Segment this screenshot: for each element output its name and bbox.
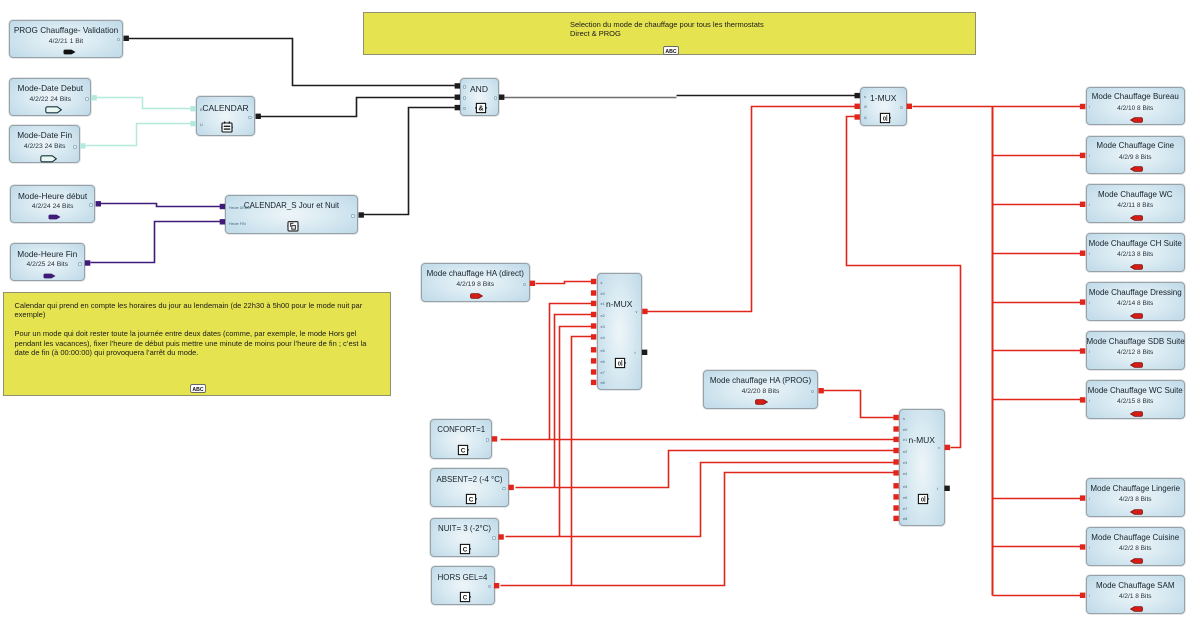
pin Mode Chauffage WC input xyxy=(1080,202,1085,207)
wire branch HORS GEL -> n-MUX1.e4 xyxy=(572,337,594,586)
pin n-MUX 2 input e5 xyxy=(893,483,898,488)
icon calendar_s xyxy=(287,220,299,232)
note Calendar explanation xyxy=(3,292,391,396)
svg-text:0: 0 xyxy=(618,361,621,367)
svg-text:C: C xyxy=(463,547,468,554)
output block Mode Chauffage WC Suite xyxy=(1086,380,1186,419)
pin Mode Chauffage Cine input xyxy=(1080,153,1085,158)
function block 1-MUX xyxy=(860,87,907,126)
wire PROG.out -> AND.in1 xyxy=(129,39,455,86)
pin HA PROG output xyxy=(818,388,823,393)
pin n-MUX 1 input e2 xyxy=(591,312,596,317)
icon 8-bit flag red left xyxy=(1130,606,1143,612)
pin n-MUX 2 output t xyxy=(944,486,949,491)
pin constant ABSENT=2 (-4 C) output xyxy=(508,485,513,490)
svg-text:0: 0 xyxy=(920,497,923,503)
wire AND.out segment gray xyxy=(505,97,677,99)
wire CONFORT -> n-MUX2.e1 xyxy=(501,439,896,441)
wire Mode-Heure-Fin.out -> CALENDAR_S.HeureFIN xyxy=(91,222,223,263)
icon constant xyxy=(465,493,477,505)
icon 8-bit flag red left xyxy=(1130,313,1143,319)
function block CALENDAR_S Jour et Nuit xyxy=(225,195,358,234)
icon 8-bit flag red left xyxy=(1130,215,1143,221)
icon constant xyxy=(459,591,471,603)
wire Mode-Date-Fin.out -> CALENDAR.U xyxy=(86,124,194,146)
wire bus -> Mode Chauffage Cine xyxy=(993,155,1083,157)
pin Mode Chauffage CH Suite input xyxy=(1080,251,1085,256)
pin constant HORS GEL=4 output xyxy=(494,583,499,588)
input block Mode chauffage HA (direct) xyxy=(421,263,530,302)
wire AND.out -> 1-MUX.s xyxy=(677,95,855,97)
pin Mode Chauffage Bureau input xyxy=(1080,104,1085,109)
input block Mode-Date Debut xyxy=(9,78,91,116)
input block Mode-Date Fin xyxy=(9,125,80,164)
wire bus -> Mode Chauffage WC xyxy=(993,204,1083,206)
svg-text:0: 0 xyxy=(883,117,886,123)
pin n-MUX 1 output t xyxy=(642,350,647,355)
output block Mode Chauffage Cine xyxy=(1086,136,1186,175)
pin Mode Chauffage SAM input xyxy=(1080,593,1085,598)
pin HA direct output xyxy=(530,281,535,286)
pin n-MUX 1 input e1 xyxy=(591,301,596,306)
wire n-MUX2.v -> 1-MUX.i1 xyxy=(847,117,961,448)
pin n-MUX 1 input e0 xyxy=(591,290,596,295)
svg-text:ABC: ABC xyxy=(192,386,203,392)
output block Mode Chauffage CH Suite xyxy=(1086,233,1186,272)
output block Mode Chauffage Bureau xyxy=(1086,87,1186,126)
pin CALENDAR input B xyxy=(190,106,195,111)
pin Mode-Heure Fin output xyxy=(85,260,90,265)
svg-text:C: C xyxy=(460,447,465,454)
pin n-MUX 2 input e4 xyxy=(893,470,898,475)
wire branch NUIT -> n-MUX1.e3 xyxy=(560,327,594,537)
pin n-MUX 1 input e6 xyxy=(591,358,596,363)
pin n-MUX 2 input e0 xyxy=(893,426,898,431)
pin AND output xyxy=(499,95,504,100)
pin CALENDAR_S input Heure DEBUT xyxy=(220,204,225,209)
constant CONFORT=1 xyxy=(430,419,492,459)
pin n-MUX 2 input e7 xyxy=(893,505,898,510)
wire bus -> Mode Chauffage Lingerie xyxy=(993,498,1083,500)
icon 8-bit flag red left xyxy=(1130,558,1143,564)
icon 1-bit flag xyxy=(63,49,76,55)
pin Mode Chauffage WC Suite input xyxy=(1080,397,1085,402)
constant ABSENT=2 (-4 C) xyxy=(430,468,509,507)
icon 24-bit flag xyxy=(40,155,57,163)
wire branch ABSENT -> n-MUX1.e2 xyxy=(555,315,594,488)
pin CALENDAR_S output xyxy=(359,212,364,217)
icon mux xyxy=(879,112,891,124)
icon calendar xyxy=(221,121,233,133)
svg-text:C: C xyxy=(468,496,473,503)
pin n-MUX 1 input e4 xyxy=(591,334,596,339)
pin 1-MUX input i1 xyxy=(855,114,860,119)
function block CALENDAR xyxy=(196,96,255,136)
icon 8-bit flag red left xyxy=(1130,411,1143,417)
wire CALENDAR.out -> AND.in2 xyxy=(261,98,455,117)
wire bus -> Mode Chauffage CH Suite xyxy=(993,253,1083,255)
pin Mode Chauffage SDB Suite input xyxy=(1080,348,1085,353)
pin n-MUX 2 input s xyxy=(893,415,898,420)
pin AND input 2 xyxy=(455,95,460,100)
pin n-MUX 2 input e2 xyxy=(893,448,898,453)
icon ABC note marker xyxy=(663,46,679,55)
wire HORS GEL -> n-MUX2.e4 xyxy=(501,473,896,586)
wire n-MUX1.v -> 1-MUX.i0 xyxy=(648,107,855,312)
wire bus -> Mode Chauffage SDB Suite xyxy=(993,350,1083,352)
pin CALENDAR_S input Heure FIN xyxy=(220,219,225,224)
pin PROG output xyxy=(124,36,129,41)
pin constant NUIT= 3 (-2C) output xyxy=(498,534,503,539)
output block Mode Chauffage Cuisine xyxy=(1086,527,1186,566)
icon 8-bit flag red xyxy=(470,293,483,299)
constant NUIT= 3 (-2C) xyxy=(430,518,499,558)
pin Mode-Date Debut output xyxy=(91,95,96,100)
pin Mode-Date Fin output xyxy=(80,143,85,148)
pin n-MUX 1 input e7 xyxy=(591,369,596,374)
wire bus -> Mode Chauffage Cuisine xyxy=(993,546,1083,548)
icon mux xyxy=(917,493,929,505)
wire HAPROG.out -> n-MUX2.s xyxy=(824,391,896,418)
note Selection du mode de chauffage xyxy=(363,12,976,55)
wire bus -> Mode Chauffage Bureau xyxy=(993,106,1083,108)
pin 1-MUX output o xyxy=(907,104,912,109)
icon 24-bit flag purple xyxy=(48,214,61,220)
icon AND gate xyxy=(475,102,487,114)
input block PROG Chauffage- Validation xyxy=(9,20,123,58)
pin n-MUX 1 input s xyxy=(591,279,596,284)
svg-text:ABC: ABC xyxy=(665,49,676,55)
pin n-MUX 2 input e6 xyxy=(893,494,898,499)
pin AND input 1 xyxy=(455,83,460,88)
icon 8-bit flag red xyxy=(755,399,768,405)
n-MUX 1 xyxy=(597,273,643,390)
wire branch CONFORT -> n-MUX1.e1 xyxy=(550,304,594,440)
pin CALENDAR output xyxy=(256,114,261,119)
wire bus -> Mode Chauffage WC Suite xyxy=(993,399,1083,401)
wire NUIT -> n-MUX2.e3 xyxy=(506,463,896,537)
wire Mode-Date-Debut.out -> CALENDAR.B xyxy=(97,98,194,109)
output block Mode Chauffage Dressing xyxy=(1086,282,1186,321)
icon 24-bit flag xyxy=(45,106,62,114)
pin 1-MUX input i0 xyxy=(855,104,860,109)
pin n-MUX 2 input e8 xyxy=(893,516,898,521)
icon 8-bit flag red left xyxy=(1130,166,1143,172)
wire CALENDAR_S.out -> AND.in3 xyxy=(364,108,455,215)
input block Mode chauffage HA (PROG) xyxy=(703,370,818,409)
icon 8-bit flag red left xyxy=(1130,362,1143,368)
wire bus -> Mode Chauffage Dressing xyxy=(993,302,1083,304)
output block Mode Chauffage SDB Suite xyxy=(1086,331,1186,370)
n-MUX 2 xyxy=(899,409,945,526)
wire HAdirect.out -> n-MUX1.s xyxy=(536,282,593,284)
pin n-MUX 2 output v xyxy=(945,445,950,450)
wire Mode-Heure-debut.out -> CALENDAR_S.HeureDEBUT xyxy=(101,204,223,207)
pin n-MUX 1 input e8 xyxy=(591,380,596,385)
svg-text:C: C xyxy=(463,595,468,602)
icon 8-bit flag red left xyxy=(1130,117,1143,123)
icon constant xyxy=(459,543,471,555)
icon 24-bit flag purple xyxy=(43,273,56,279)
pin Mode Chauffage Dressing input xyxy=(1080,299,1085,304)
icon ABC note marker xyxy=(190,384,206,393)
pin Mode-Heure début output xyxy=(96,201,101,206)
pin n-MUX 1 input e5 xyxy=(591,347,596,352)
function block AND xyxy=(460,78,499,116)
wire red distribution bus vertical xyxy=(992,107,994,596)
input block Mode-Heure début xyxy=(10,185,96,223)
wire 1-MUX.o -> bus xyxy=(913,106,993,108)
pin constant CONFORT=1 output xyxy=(492,436,497,441)
svg-text:&: & xyxy=(478,105,483,112)
icon mux xyxy=(614,357,626,369)
pin Mode Chauffage Lingerie input xyxy=(1080,495,1085,500)
pin 1-MUX input s xyxy=(855,93,860,98)
pin n-MUX 1 input e3 xyxy=(591,323,596,328)
pin CALENDAR input U xyxy=(190,121,195,126)
pin n-MUX 1 output v xyxy=(642,309,647,314)
pin n-MUX 2 input e1 xyxy=(893,437,898,442)
wire bus -> Mode Chauffage SAM xyxy=(993,595,1083,597)
output block Mode Chauffage SAM xyxy=(1086,575,1186,614)
constant HORS GEL=4 xyxy=(431,566,495,605)
output block Mode Chauffage Lingerie xyxy=(1086,478,1186,517)
pin AND input 3 xyxy=(455,105,460,110)
output block Mode Chauffage WC xyxy=(1086,184,1186,223)
input block Mode-Heure Fin xyxy=(10,243,85,281)
icon 8-bit flag red left xyxy=(1130,509,1143,515)
wire ABSENT -> n-MUX2.e2 xyxy=(516,451,896,488)
pin n-MUX 2 input e3 xyxy=(893,459,898,464)
icon 8-bit flag red left xyxy=(1130,264,1143,270)
icon constant xyxy=(457,444,469,456)
pin Mode Chauffage Cuisine input xyxy=(1080,544,1085,549)
